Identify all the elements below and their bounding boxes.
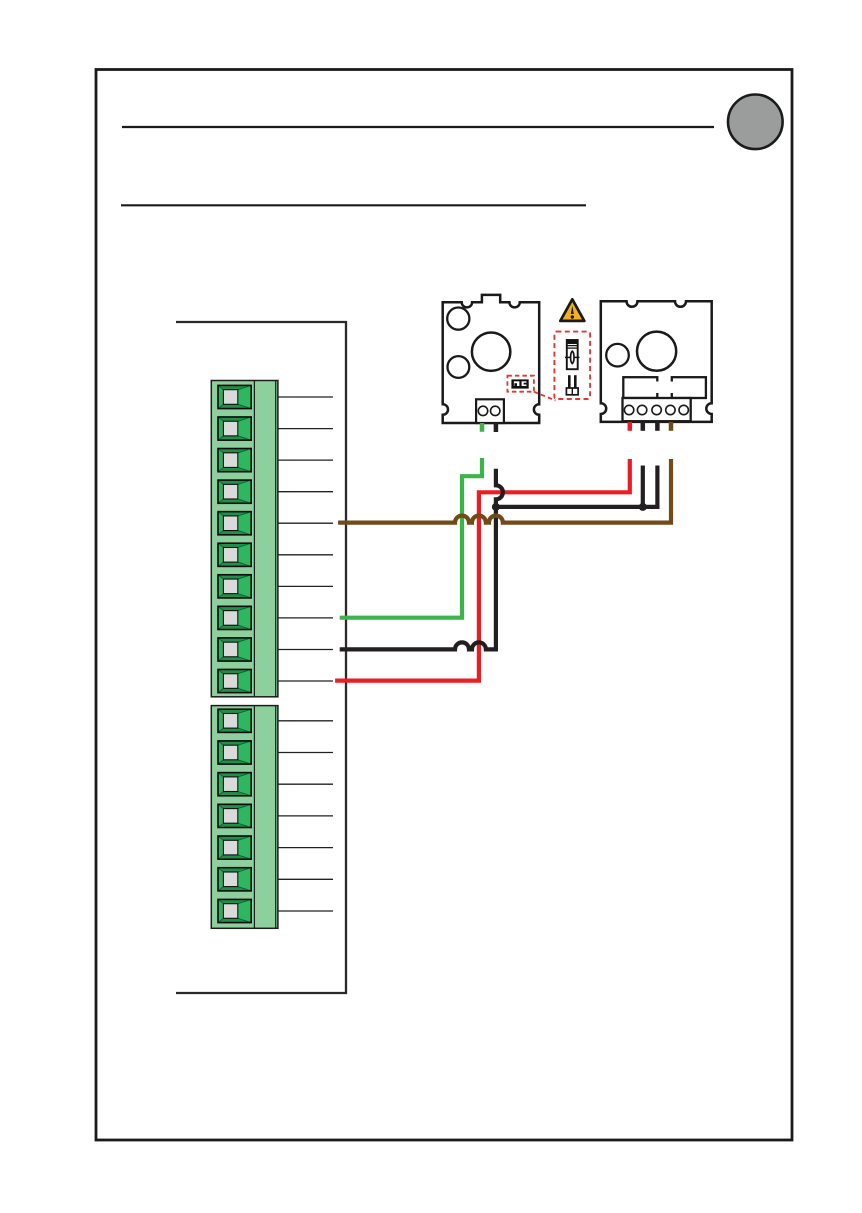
pin lead line 1 — [278, 396, 333, 398]
U1 terminal box — [476, 399, 504, 423]
terminal pin 14 — [218, 804, 251, 827]
terminal pin 16 — [218, 868, 251, 891]
jumper callout dashed line — [534, 392, 556, 401]
control board outline — [176, 322, 346, 993]
U2 socket hole 2 — [637, 405, 646, 414]
U1 terminal hole 1 — [478, 406, 487, 415]
U2 socket hole 1 — [624, 405, 633, 414]
terminal pin 17 — [218, 899, 251, 922]
black wire from U1 — [340, 469, 503, 650]
U2 hole left — [606, 344, 629, 367]
module U2 outline — [601, 301, 712, 422]
U2 connector upper right — [672, 377, 706, 398]
terminal pin 15 — [218, 836, 251, 859]
pin lead line 5 — [278, 522, 333, 524]
terminal pin 6 — [218, 543, 251, 566]
terminal block TB2 — [211, 706, 278, 929]
warning symbol — [560, 299, 584, 321]
pin lead line 13 — [278, 783, 333, 785]
wire stub black U1 pin — [494, 423, 499, 432]
pin lead line 17 — [278, 910, 333, 912]
pin lead line 9 — [278, 649, 333, 651]
wire stub black U2 pin 3 — [655, 422, 660, 431]
step marker circle — [728, 95, 783, 150]
U2 socket hole 4 — [666, 405, 675, 414]
pin lead lines — [278, 397, 333, 911]
pin lead line 14 — [278, 815, 333, 817]
terminal pin 2 — [218, 417, 251, 440]
terminal pin 11 — [218, 709, 251, 732]
black wire U2 pin2 drop — [641, 466, 645, 507]
terminal pin 3 — [218, 449, 251, 472]
U2 socket strip — [623, 398, 691, 421]
junction dot A — [492, 503, 500, 511]
U1 terminal hole 2 — [491, 406, 500, 415]
pin lead line 16 — [278, 878, 333, 880]
terminal block TB1 — [211, 381, 278, 697]
pin lead line 7 — [278, 585, 333, 587]
U2 socket hole 5 — [679, 405, 688, 414]
pin lead line 3 — [278, 459, 333, 461]
title underline 2 — [121, 204, 586, 206]
pin lead line 6 — [278, 554, 333, 556]
U1 hole top-left — [447, 308, 469, 330]
jumper JP1 — [507, 376, 534, 392]
pin lead line 2 — [278, 428, 333, 430]
U1 hole mid-left — [448, 356, 470, 378]
junction dot B — [639, 503, 647, 511]
terminal pin 8 — [218, 606, 251, 629]
black wire link U2 — [496, 466, 658, 507]
terminal pin 4 — [218, 480, 251, 503]
page border frame — [96, 70, 792, 1141]
U1 big hole — [472, 333, 510, 371]
terminal pin 12 — [218, 741, 251, 764]
U2 connector gap breaks — [655, 382, 674, 394]
fuse holder icon — [566, 375, 578, 395]
terminal pin 13 — [218, 773, 251, 796]
pin lead line 11 — [278, 720, 333, 722]
terminal pin 7 — [218, 575, 251, 598]
wire stub brown U2 pin 4 — [669, 422, 674, 431]
pin lead line 4 — [278, 491, 333, 493]
pin lead line 15 — [278, 847, 333, 849]
terminal pin 10 — [218, 669, 251, 692]
U2 socket hole 3 — [652, 405, 661, 414]
pin lead line 10 — [278, 680, 333, 682]
pin lead line 12 — [278, 752, 333, 754]
wire stub red U2 pin — [628, 422, 633, 431]
wire stub black U2 pin 2 — [641, 422, 646, 431]
red wire — [335, 459, 630, 681]
terminal pin 1 — [218, 385, 251, 408]
green wire — [340, 458, 482, 618]
pin lead line 8 — [278, 617, 333, 619]
U2 connector upper left — [623, 377, 657, 398]
terminal pin 5 — [218, 512, 251, 535]
title underline 1 — [122, 126, 714, 128]
wire stub green U1 pin — [480, 423, 485, 432]
fuse F1 icon — [565, 340, 580, 369]
U2 big hole — [637, 332, 676, 371]
module U1 outline — [443, 295, 540, 423]
fuse detail dashed box — [554, 332, 590, 399]
brown wire — [338, 459, 671, 523]
terminal pin 9 — [218, 638, 251, 661]
